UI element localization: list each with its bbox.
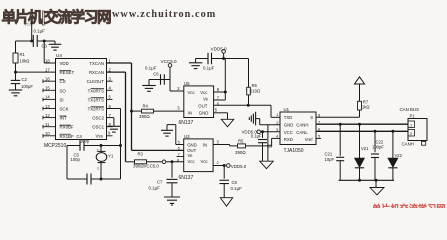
svg-text:VDD: VDD [60,61,69,66]
capacitor C7 0.1uF [149,162,178,197]
svg-text:V21: V21 [361,146,369,151]
wire U3 pin3 to R5 [213,145,229,146]
wire TJA RXD pin4 [272,138,280,146]
ground TJA triangle [260,161,274,169]
node VDD5.0 at TJA VCC [242,130,281,135]
wire TJA S pin8 [316,116,360,118]
svg-text:R1: R1 [20,52,26,57]
svg-text:2: 2 [97,149,99,153]
IC U1 TJA1050 [276,107,321,154]
ground top-left [49,41,62,50]
ground U3 pin5 [161,125,184,145]
svg-text:R3: R3 [138,152,144,157]
svg-text:6N137: 6N137 [179,120,194,126]
svg-text:0.1μF: 0.1μF [251,133,262,138]
svg-text:单片机交流学习网: 单片机交流学习网 [372,203,446,209]
svg-text:14: 14 [45,95,50,100]
capacitor C21 10pF [325,124,345,180]
svg-text:6N137: 6N137 [179,175,194,181]
wire CANH [316,123,408,126]
svg-text:0.1μF: 0.1μF [34,29,46,34]
svg-text:Vref: Vref [305,137,314,142]
capacitor C6 0.1uF [145,65,170,84]
wire TJA GND pin2 [260,125,280,161]
ground reset RC [9,84,23,96]
node VCC [24,21,33,41]
svg-text:0.1μF: 0.1μF [203,65,215,70]
svg-text:SI: SI [60,97,64,102]
no-connect pin stubs MCP2510 left pins 16-10 [43,79,56,137]
ground C7 bottom [164,197,180,206]
pin stubs MCP2510 right pins 3,4,5,8,9 [107,81,113,136]
svg-text:C21: C21 [325,151,333,156]
svg-text:U4: U4 [56,53,62,58]
node VCC5.0 lower [144,160,184,168]
svg-text:SCK: SCK [60,107,69,112]
watermark text [2,8,217,26]
svg-text:0.1μF: 0.1μF [149,186,161,191]
svg-text:100pF: 100pF [372,145,384,150]
svg-text:C2: C2 [22,77,28,82]
svg-text:C22: C22 [376,139,384,144]
svg-text:VCC: VCC [284,130,293,135]
ground VDD rail left [189,59,203,69]
svg-text:单片机|交流学习网: 单片机|交流学习网 [2,8,111,26]
svg-text:IN: IN [188,110,192,115]
svg-text:P1: P1 [410,113,416,118]
svg-text:VDD5.0: VDD5.0 [231,164,247,169]
capacitor C2 100uF reset [11,77,34,89]
svg-text:Y1: Y1 [108,154,114,159]
svg-text:Ve: Ve [203,97,209,102]
svg-text:IN: IN [203,142,207,147]
svg-text:0.1μF: 0.1μF [231,186,243,191]
diode V22 TVS [388,131,403,180]
svg-text:C9: C9 [267,144,273,149]
optocoupler U5 6N137 [177,81,220,126]
svg-text:S: S [310,115,313,120]
node VCC5.0 upper [161,59,184,91]
svg-text:R4: R4 [143,104,149,109]
IC U4 MCP2510 [44,53,112,149]
ground protection triangle [370,188,384,195]
wire crystal left rail [66,146,68,180]
svg-text:TXCAN: TXCAN [89,61,104,66]
svg-text:VCC5.0: VCC5.0 [161,59,178,64]
svg-text:TX2RTS: TX2RTS [88,107,105,112]
wire RESET node to pin 17 [14,63,56,81]
svg-text:C8: C8 [232,180,238,185]
svg-text:U3: U3 [184,134,190,139]
svg-text:OSC2: OSC2 [92,116,104,121]
svg-text:CANH: CANH [296,123,308,128]
wire protection ground bus [339,179,395,188]
svg-text:VCC5.0: VCC5.0 [144,163,160,168]
svg-text:OUT: OUT [198,104,207,109]
svg-text:1kΩ: 1kΩ [362,105,370,110]
wire RXCAN from pin 2 [107,72,126,162]
wire CANL [316,130,408,133]
svg-text:OSC1: OSC1 [92,125,104,130]
TJA pin5 Vref stub [316,137,321,139]
svg-text:Vcc: Vcc [188,90,196,95]
svg-text:CANH: CANH [402,141,414,146]
svg-text:GND: GND [187,142,197,147]
power symbol arrow [355,77,365,102]
diode V21 TVS [355,124,369,180]
resistor R6 510R pull-up [247,59,260,106]
svg-text:CLKOUT: CLKOUT [87,79,105,84]
svg-text:R6: R6 [252,83,258,88]
capacitor C8 0.1uF [219,166,242,198]
ground U5 pin5 signal [214,113,234,127]
svg-text:SO: SO [60,88,67,93]
resistor R7 1k [358,99,370,117]
svg-text:C7: C7 [157,179,163,184]
svg-text:15: 15 [45,86,50,91]
svg-text:CANL: CANL [296,130,308,135]
svg-text:MCP2510: MCP2510 [44,143,66,149]
svg-text:TJA1050: TJA1050 [284,148,304,154]
svg-text:RX1BF: RX1BF [60,134,74,139]
wire U5 pin8 pin7 to VDD rail [214,59,227,101]
capacitor C22 100pF [371,131,384,180]
svg-text:GND: GND [284,123,294,128]
svg-text:Vcc: Vcc [201,159,209,164]
svg-text:390Ω: 390Ω [139,114,150,119]
wire crystal top node [84,144,121,147]
svg-text:100p: 100p [71,157,81,162]
svg-text:10kΩ: 10kΩ [20,58,30,63]
connector P1 CAN BUS [400,107,428,147]
resistor R1 10k reset pull-up [13,41,29,63]
svg-text:GND: GND [199,110,209,115]
U3 pin7 stub [177,156,184,158]
svg-text:TX1RTS: TX1RTS [88,97,105,102]
svg-text:www.zchuitron.com: www.zchuitron.com [112,9,216,20]
capacitor C3 0.1uF decoupling [33,29,47,49]
svg-text:R5: R5 [238,138,244,143]
capacitor C5 100p [67,153,121,185]
ground MCP pin7 [107,118,121,133]
svg-text:U1: U1 [284,107,290,112]
capacitor C9 0.1uF at TJA VCC [251,132,273,161]
node VDD5.0 top [211,46,228,60]
ground C8 triangle [220,198,233,207]
resistor R4 390R LED series [132,104,184,119]
wire VCC rail top-left [16,40,56,43]
optocoupler U3 6N137 [177,134,220,181]
resistor R5 390R RXD series [230,138,272,155]
svg-text:CAN BUS: CAN BUS [400,107,420,112]
svg-text:10pF: 10pF [325,157,335,162]
svg-text:0.1μF: 0.1μF [145,65,157,70]
capacitor C4 100p [67,134,90,151]
svg-text:TXD: TXD [284,115,293,120]
svg-text:Vcc: Vcc [188,159,196,164]
svg-text:R7: R7 [363,99,369,104]
wire TXCAN from pin 1 [107,63,184,150]
svg-text:VDD5.0: VDD5.0 [211,46,228,51]
svg-text:OUT: OUT [187,148,196,153]
svg-text:100p: 100p [80,139,90,144]
svg-text:Ve: Ve [188,153,194,158]
svg-text:V22: V22 [395,153,403,158]
svg-text:C6: C6 [153,72,159,77]
node VDD5.0 at U3 pin2 [213,164,247,169]
svg-text:390Ω: 390Ω [235,150,246,155]
ground sideways at TJA pin2 [249,112,259,126]
svg-text:Vss: Vss [96,134,104,139]
resistor R3 390R pull-up RXCAN [126,152,147,169]
wire OSC drop from pin 6 [107,109,123,180]
svg-text:RXCAN: RXCAN [89,70,104,75]
wire U5 OUT to TJA TXD [214,104,280,118]
svg-text:U5: U5 [184,81,190,86]
svg-text:TX0RTS: TX0RTS [88,88,105,93]
svg-text:RXD: RXD [284,137,293,142]
svg-text:510Ω: 510Ω [250,89,260,94]
svg-text:100μF: 100μF [21,84,33,89]
svg-text:1: 1 [97,167,99,171]
capacitor C10 0.1uF on VDD rail [196,53,249,71]
crystal Y1 [96,146,114,181]
svg-text:Vcc: Vcc [200,90,208,95]
wire VDD to pin 18 [43,40,56,64]
ground U5 VCC side [142,80,160,92]
